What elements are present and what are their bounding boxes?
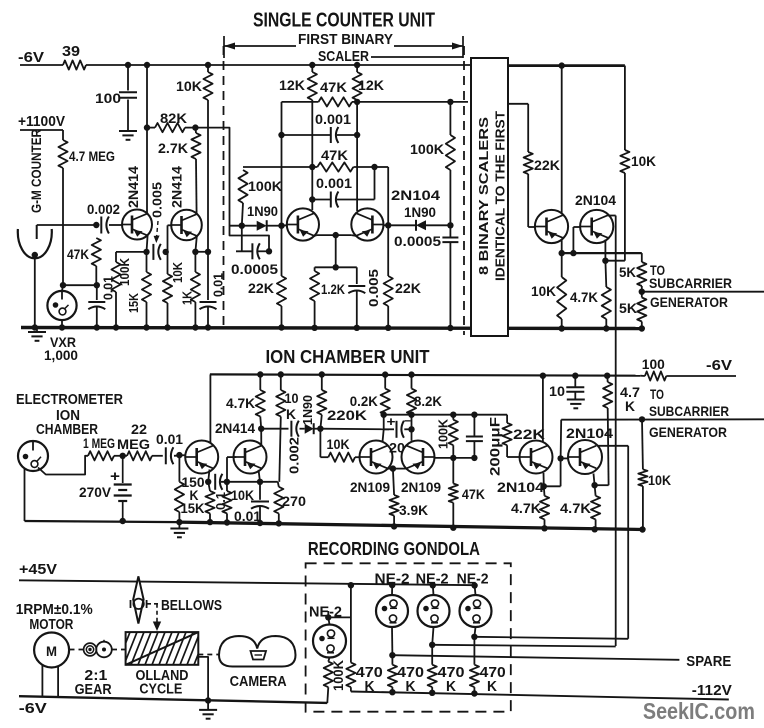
transistor Q7 2N109 [360,441,393,474]
node 0.001u right [354,132,360,138]
resistor 10K horiz [328,453,355,462]
node 100K ion top [450,412,456,418]
label 0.01 vertical [101,276,116,300]
olland cycle box [126,632,199,665]
node lamp a out [389,652,395,658]
node gnd rail 10Kion [224,519,230,525]
olland hatching [110,632,207,665]
node rail 0.01a [94,324,100,330]
svg-text:10K: 10K [231,487,254,503]
node gnd rail 270 [276,520,282,526]
node bus 470K2 [389,689,395,695]
node 100K ion bottom [450,455,456,461]
label 4.7 K ion [620,384,640,414]
label 100K gondola vertical [331,660,346,691]
transistor Q8 2N109 mirrored [402,441,435,474]
wire 100K3 leads [449,102,451,225]
label 0.001 lower [316,175,352,191]
wire Q4 base lead [384,224,389,226]
transistor Q4 2N104 mirrored [351,208,383,240]
node rail 22K1 [278,324,284,330]
wire lamp1 link [328,616,351,618]
svg-text:1 MEG: 1 MEG [83,435,115,451]
node olland gnd cross [205,697,211,703]
wire 470K3 bottom [431,687,433,693]
resistor 39 [63,60,86,69]
transistor Qe2 2N414 [234,441,267,474]
label -6V ion [706,357,732,374]
node 47K-0.01 junction [94,282,100,288]
wire rail corner down [624,66,626,150]
dashed boundary right of scaler [463,46,465,335]
title SINGLE COUNTER UNIT [253,10,435,32]
svg-text:0.005: 0.005 [150,182,165,218]
wire bias line 415 [384,414,507,416]
dashed shaft gear-box [112,649,126,651]
wire 47K bottom [95,266,97,285]
svg-text:10K: 10K [531,283,556,299]
node rail 0.0005r [447,325,453,331]
svg-text:2N109: 2N109 [350,479,390,495]
node diode line left [239,223,245,229]
label 0.002 [87,201,120,217]
label OLLAND [136,668,189,684]
wire Q9 emitter [543,473,545,487]
wire -6V ion [640,375,736,377]
wire Q3 collector column [311,102,313,210]
label 8.2K [414,393,442,409]
node lamp b out [429,642,435,648]
node rail 4.7Ki1 [541,525,547,531]
title RECORDING GONDOLA [308,538,480,559]
node rail lamp c [471,582,477,588]
node 47K2 left [309,164,315,170]
svg-text:-6V: -6V [18,49,44,66]
label ION [56,408,80,424]
node rail lamp a [389,582,395,588]
lamp NE-2 c [460,595,492,627]
capacitor 0.002 [101,217,109,234]
label 2N104 ion left [497,479,544,495]
label 10K lower out [531,283,556,299]
node 0.001u left [278,132,284,138]
svg-text:GEAR: GEAR [75,682,112,698]
node rail 100K [113,324,119,330]
resistor 10K out [620,150,629,173]
svg-text:47K: 47K [320,79,347,95]
wire 4.7Kc bottom [605,319,607,329]
resistor 15K [142,272,151,302]
wire Q6 collector [608,216,616,647]
wire Qe1 emitter [208,470,209,482]
dashed bellows arrow [153,604,161,631]
svg-text:MOTOR: MOTOR [29,617,73,633]
svg-text:SINGLE COUNTER UNIT: SINGLE COUNTER UNIT [253,10,435,32]
svg-text:4.7 MEG: 4.7 MEG [69,148,115,164]
wire 0.01ion top [259,482,261,500]
svg-text:15K: 15K [181,500,205,516]
G-M counter tube envelope [18,229,52,258]
wire 5K1 leads [641,253,643,297]
transistor Q3 2N104 [287,208,319,240]
title SCALER [318,48,369,65]
resistor 12K 2 [353,65,362,102]
resistor 47K gm [92,238,101,266]
label NE-2 a [375,572,410,588]
svg-text:4.7K: 4.7K [560,500,591,516]
node rail-82k feed [144,62,150,68]
resistor 5K lower [637,298,646,322]
capacitor 0.005 ff [348,286,365,293]
wire ecap right [404,428,411,430]
svg-text:22K: 22K [395,280,421,296]
wire electrometer output [38,456,88,475]
svg-text:2N104: 2N104 [575,192,616,208]
svg-text:2.7K: 2.7K [158,140,188,156]
wire -6V gondola rail [19,696,327,703]
label IDENTICAL TO THE FIRST vertical [494,111,508,281]
node cap474 bottom [471,455,477,461]
svg-text:10K: 10K [327,436,350,452]
svg-text:1RPM±0.1%: 1RPM±0.1% [16,602,93,618]
wire signal line [261,428,288,430]
resistor 1MEG [88,451,114,460]
node ion rail 220K [319,371,325,377]
svg-text:10K: 10K [648,472,671,488]
arrow 0.005 to cap [154,221,160,243]
resistor 1K [191,272,200,302]
label 470K 4 [480,665,506,695]
label SPARE [686,654,731,670]
lamp NE-2 a [376,595,408,627]
resistor 4.7K ion1 [540,486,549,519]
node ion rail 0.2K [382,371,388,377]
label 0.005 vertical ff [366,269,381,307]
node G-M tube bottom [32,252,38,258]
node Qe2 emitter [257,479,263,485]
label 8 BINARY SCALERS vertical [477,117,491,275]
wire emitter link [195,251,208,253]
wire Q5 top [561,66,563,214]
node rail 10Ksub [639,526,645,532]
label GEAR [75,682,112,698]
svg-text:2N104: 2N104 [391,187,440,203]
label 22K ff right [395,280,421,296]
svg-text:22K: 22K [513,426,545,442]
wire 47K2 line left [243,166,317,168]
bellows shape [133,576,143,623]
wire 82K right lead [185,127,195,129]
svg-text:100K: 100K [436,418,451,449]
node Q9 emitter [541,483,547,489]
wire 0.01 q2 to rail [207,307,209,328]
wire 22K2 top [387,225,389,276]
wire box to 22K [508,104,528,152]
node input-cap junction [266,248,272,254]
wire 5K2 bottom [641,322,643,329]
label 200uuF vertical [488,417,503,476]
wire lamp b top [432,585,435,595]
label SUBCARRIER upper [649,275,732,291]
node 0.002-47K junction [93,222,99,228]
wire 22K1 top [281,226,283,276]
label 2:1 [84,668,107,684]
battery 270V [114,456,132,521]
node rail-10K [205,62,211,68]
svg-text:10: 10 [549,383,565,399]
node rail 10Kb [164,324,170,330]
wire cap100 top [127,65,129,91]
wire Q1 emitter [147,235,148,252]
label 10 K ion [285,390,299,422]
wire lamp b line [432,645,616,647]
svg-text:1N90: 1N90 [247,203,278,219]
resistor 100K q1 [111,252,120,292]
svg-text:220K: 220K [327,407,367,423]
label 220K [327,407,367,423]
wire 1.2K bottom [314,301,316,328]
svg-text:270V: 270V [79,484,112,500]
ground below cap 100 [119,131,137,140]
wire base line ion [453,457,474,459]
label 4.7K ion [226,395,255,411]
label ELECTROMETER [16,392,123,408]
svg-text:+: + [110,468,120,485]
wire counter ground rail [21,328,643,329]
capacitor 0.01 ion2 [251,502,269,509]
resistor 100K ion [449,415,458,458]
svg-text:22K: 22K [248,280,274,296]
wire diode line [230,225,282,227]
wire cap474 leads [473,415,475,458]
resistor 220K [317,375,326,429]
wire lamp c bottom [474,627,475,637]
node rail lamp b [430,582,436,588]
resistor 10K ion2 [222,482,231,514]
label 3.9K [399,502,428,518]
svg-text:CAMERA: CAMERA [230,674,287,690]
label 12K right [358,77,384,93]
wire 12K1 leads [311,65,313,102]
wire cap to Qe1 base [174,454,186,457]
svg-text:5K: 5K [619,300,637,316]
wire 100K ff1 bottom [242,203,243,226]
node 47K1-100K3 [447,99,453,105]
wire 10K to rail [167,303,169,328]
label 10K ion horiz [327,436,350,452]
resistor 22K ff2 [384,276,393,306]
label GENERATOR ion [649,424,727,440]
wire lamp1 top [328,611,329,625]
label VXR [50,334,76,350]
wire tail bus [315,267,357,284]
svg-text:0.2K: 0.2K [350,393,378,409]
svg-text:BELLOWS: BELLOWS [161,598,222,614]
wire emitter link ion [393,468,406,470]
node bus 470K4 [471,690,477,696]
wire ion top rail [210,374,640,375]
bellows valve [131,599,147,609]
wire 4.7MEG to VXR node [62,168,64,285]
label 10K sub [648,472,671,488]
label CYCLE [139,682,182,698]
wire Q3 base column [281,102,283,226]
label 2N109 right [401,479,441,495]
wire 8.2K to Q8 collector [411,415,413,441]
capacitor 0.001 lower [331,192,339,208]
label TO upper [650,262,665,278]
node battery tap [120,453,126,459]
wire Q10 base lead [561,457,569,459]
svg-text:100: 100 [95,90,121,106]
node 47K1-12K2 [354,99,360,105]
wire 4.7Ki1 bottom [544,519,546,528]
label 100K ff right [410,141,444,157]
svg-text:M: M [46,644,57,659]
node rail 5K2 [639,325,645,331]
wire base node to 10K [167,252,169,274]
resistor 2.7K [191,133,200,159]
resistor 470K 4 [470,637,479,687]
wire 470K1 column [350,585,352,662]
resistor 1.2K [310,271,319,301]
label 0.2K [350,393,378,409]
wire 82K left lead [147,127,155,129]
resistor 22K out [524,152,533,174]
resistor 4.7K ion [256,375,265,429]
wire VXR stem [62,285,63,291]
label CAMERA [230,674,287,690]
label GENERATOR upper [650,294,728,310]
label SUBCARRIER ion [649,403,729,419]
wire 4.7Ki2 bottom [595,519,597,529]
dashed boundary left of scaler [223,46,225,330]
wire rail to Q1 collector [146,65,148,214]
wire emitter join [314,234,356,237]
node 0.005 right [163,249,169,255]
label 5K upper [619,264,636,280]
svg-text:+45V: +45V [19,561,57,578]
lamp NE-2 b [418,595,450,627]
label -6V [18,49,44,66]
label 2N104 ff [391,187,440,203]
label 5K lower [619,300,637,316]
svg-text:SeekIC.com: SeekIC.com [643,698,755,724]
wire subcarrier line ion [561,418,764,420]
node 4.7MEG-VXR junction [60,282,66,288]
node bus Q6 base [570,250,576,256]
node lamp c out [471,634,477,640]
wire electrometer left pin [24,469,26,522]
svg-text:CYCLE: CYCLE [139,682,182,698]
wire Qe2 base [227,457,236,482]
label 47K [67,246,89,262]
svg-text:RECORDING GONDOLA: RECORDING GONDOLA [308,538,480,559]
wire 22K1 bottom [281,306,283,328]
wire Q2 e to 1K [194,252,196,272]
wire olland ground [198,657,208,710]
wire spare line [392,655,679,660]
svg-text:0.0005: 0.0005 [394,233,441,249]
label 4.7MEG [69,148,115,164]
connector electrometer socket [18,441,48,471]
label 47K ion [462,486,485,502]
wire lamp c line [474,637,628,639]
svg-text:0.002: 0.002 [87,201,120,217]
wire diode2 line [388,224,450,226]
diode 1N90 right [416,220,426,231]
node 220K bottom [317,426,323,432]
svg-text:100K: 100K [410,141,444,157]
node rail 22K2 [385,325,391,331]
label 2N414 ion [215,420,255,436]
wire Q7 collector [383,429,384,442]
label 10K top [176,78,202,94]
svg-text:0.005: 0.005 [366,269,381,307]
svg-text:12K: 12K [279,77,305,93]
svg-text:47K: 47K [321,147,348,163]
wire 10K3 bottom [561,319,563,329]
label 39 [62,43,80,60]
label 150 / K / 15K [181,474,205,516]
svg-text:100: 100 [642,356,665,372]
label 470K 3 [438,665,465,695]
wire emitter line ion [221,481,278,483]
svg-text:-112V: -112V [692,683,732,699]
capacitor 0.001 upper [331,127,339,143]
wire Q1 e to 15K [146,252,148,272]
wire +45V rail [19,580,476,585]
node bus 470K3 [429,690,435,696]
label 1RPM [16,602,93,618]
svg-text:GENERATOR: GENERATOR [649,424,727,440]
wire 22MEG to cap [152,455,163,457]
svg-text:10K: 10K [631,153,656,169]
resistor 47K ff1 [319,97,353,106]
label CHAMBER [36,422,98,438]
resistor 4.7MEG [58,140,67,168]
wire 4.7Kc top [604,261,607,287]
wire 47K to cap 0.01 [96,285,98,300]
node rail 1K [192,324,198,330]
wire Q9 collector [542,376,544,442]
label 10K vertical q2 [170,261,185,283]
resistor 150K [175,455,184,512]
node rail 47Kion [450,525,456,531]
wire VXR to rail [61,320,63,327]
wire -112V bus [351,692,729,700]
node 8.2K bottom [408,412,414,418]
wire lamp1 bottom [328,658,329,662]
label 10 cap ion [549,383,565,399]
watermark SeekIC.com [643,698,755,724]
label 47K ff1 [320,79,347,95]
resistor 100 ion [645,371,666,380]
node cap474 top [471,412,477,418]
title FIRST BINARY [298,31,393,48]
node emitter join ion [390,465,396,471]
resistor 8.2K [407,375,416,415]
node Q10 base [557,455,563,461]
node ion rail Q9 [540,373,546,379]
svg-text:47K: 47K [462,486,485,502]
svg-text:K: K [286,406,296,422]
capacitor 0.01 electro [166,447,174,464]
svg-text:-6V: -6V [19,700,47,717]
node rail 1.2K [311,325,317,331]
label 2N109 left [350,479,390,495]
node rail 15K [143,324,149,330]
